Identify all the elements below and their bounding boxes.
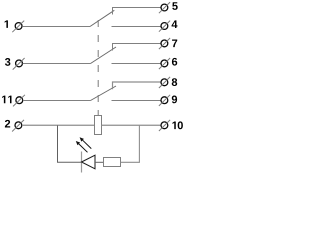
switch lever contact A bbox=[90, 10, 114, 26]
wire pin7 with corner (NC contact B) bbox=[113, 44, 161, 51]
pin 6 label bbox=[172, 58, 177, 66]
wire pin4 (NO contact A) bbox=[112, 26, 161, 28]
pin 11 terminal bbox=[13, 95, 25, 107]
wire branch left (down from node) bbox=[58, 125, 82, 162]
pin 8 label bbox=[172, 78, 177, 86]
pin 5 terminal bbox=[159, 2, 170, 13]
LED arrow 1 bbox=[76, 141, 88, 152]
wire pin6 (NO contact B) bbox=[112, 63, 161, 65]
LED cathode bar bbox=[81, 152, 83, 173]
mechanical linkage (dashed) bbox=[97, 20, 99, 116]
pin 8 terminal bbox=[159, 77, 170, 88]
pin 4 terminal bbox=[159, 21, 170, 32]
wire coil to pin10 bbox=[102, 124, 161, 126]
resistor bbox=[104, 158, 121, 167]
pin 3 label bbox=[5, 58, 10, 66]
LED arrow 2 bbox=[80, 137, 92, 148]
switch lever contact B bbox=[91, 47, 117, 64]
wire pin8 with corner (NC contact C) bbox=[113, 82, 161, 89]
pin 10 label bbox=[172, 121, 182, 129]
pin 1 terminal bbox=[12, 21, 24, 33]
switch lever contact C bbox=[91, 86, 117, 101]
pin 5 label bbox=[172, 2, 177, 10]
pin 6 terminal bbox=[159, 58, 170, 69]
pin 2 label bbox=[5, 120, 10, 128]
relay coil bbox=[95, 116, 102, 135]
pin 9 terminal bbox=[159, 95, 170, 106]
pin 7 label bbox=[172, 40, 177, 48]
pin 7 terminal bbox=[159, 38, 170, 49]
pin 2 terminal bbox=[12, 120, 24, 132]
LED triangle bbox=[82, 155, 96, 169]
wire pin5 with corner (NC contact A) bbox=[113, 8, 161, 15]
pin 9 label bbox=[172, 96, 177, 104]
pin 11 label bbox=[2, 96, 11, 104]
wire pin1 to lever bbox=[22, 26, 90, 28]
pin 3 terminal bbox=[13, 58, 25, 70]
pin 4 label bbox=[172, 20, 178, 28]
wire pin11 to lever bbox=[23, 100, 91, 102]
wire pin3 to lever bbox=[23, 63, 91, 65]
wire branch right (up to node) bbox=[121, 125, 140, 162]
pin 1 label bbox=[5, 20, 8, 28]
pin 10 terminal bbox=[159, 120, 170, 131]
wire pin9 (NO contact C) bbox=[112, 100, 161, 102]
wire LED to resistor bbox=[95, 161, 104, 163]
wire pin2 to coil bbox=[22, 124, 95, 126]
